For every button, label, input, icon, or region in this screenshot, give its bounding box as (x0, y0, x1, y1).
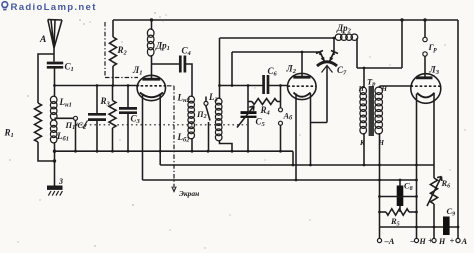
capacitor C8 (electrolytic block) (399, 180, 401, 212)
svg-text:Н: Н (358, 85, 365, 93)
wire R1 bottom to ground lead (38, 142, 55, 161)
wire C4 to Ln2 (186, 64, 192, 97)
svg-text:А: А (39, 35, 46, 45)
wire coil bottom to ground (54, 142, 56, 186)
tube L2 envelope (288, 73, 317, 99)
tube L1 anode (142, 78, 160, 81)
tube L2 anode (293, 76, 310, 79)
wire V2 grid line right part (269, 85, 288, 87)
choke Dr2 (335, 34, 342, 40)
svg-text:3: 3 (58, 177, 63, 186)
capacitor C4 (152, 63, 180, 65)
wire Tr primary bottom to bus (363, 133, 365, 165)
svg-text:А: А (461, 236, 468, 246)
wire C2 to cathode bus (96, 121, 98, 152)
resistor R6 (filament rheostat) (433, 165, 435, 178)
svg-text:П1/С2: П1/С2 (65, 120, 87, 131)
tube L1 grid (dashed) (136, 85, 166, 87)
wire Ab to bus (280, 125, 282, 151)
wire anode line y52 (L2 plate) (232, 51, 320, 53)
ground symbol (zemlya) (47, 186, 63, 190)
wire bottom bus y227 (380, 226, 459, 228)
node top rail / Gr junction (423, 18, 426, 21)
svg-text:Н: Н (419, 237, 427, 246)
wire V2 grid line left part (220, 85, 263, 87)
capacitor C2 (96, 86, 98, 114)
headphone terminal Gr upper (424, 20, 426, 37)
svg-text:Н: Н (378, 139, 385, 147)
tube L3 filament (417, 93, 435, 98)
wire V1 grid line (55, 85, 140, 87)
wire Ln2 bottom to bus (191, 138, 193, 151)
terminal Ab upper (279, 108, 283, 112)
switch P2 (205, 97, 207, 102)
resistor R3 (112, 86, 114, 101)
resistor R1 (35, 103, 42, 142)
svg-text:–А: –А (384, 236, 395, 246)
wire top B+ rail (113, 19, 458, 21)
svg-text:RadioLamp.net: RadioLamp.net (11, 2, 97, 13)
inductor Ln2 (188, 96, 195, 103)
wire filament bus y165 (160, 164, 434, 166)
inductor Lb1 (50, 120, 57, 127)
terminal -A (377, 238, 381, 242)
wire Dr2 out down (357, 38, 402, 68)
wire Tr secondary bottom down to -A (379, 133, 381, 238)
wire C7 stator left drop (319, 52, 321, 55)
wire antenna lead down (53, 48, 55, 62)
tube L1 envelope (137, 75, 165, 100)
svg-text:Н: Н (438, 237, 446, 246)
wire L2 filament leg right (310, 94, 312, 166)
wire drop x232 to grid2 line (231, 52, 233, 86)
wire C8 lower tie (380, 196, 417, 198)
(noise specks, decorative) (79, 19, 81, 21)
wire riser to top rail at x=402 (401, 20, 403, 68)
wire C1 to grid line (54, 67, 56, 85)
wire C7 stator right drop (333, 38, 335, 55)
wire R4 right / Ab jack branch (280, 86, 282, 108)
wire Gr to L3 anode (424, 56, 426, 77)
tube L3 grid (dashed) (411, 85, 443, 87)
resistor R5 (380, 211, 387, 213)
headphone terminal Gr lower (423, 52, 427, 56)
wire L2 filament leg left (295, 94, 297, 181)
shield dashed line (left) (105, 22, 138, 78)
wire L2 anode stem (301, 52, 303, 77)
resistor R2 (112, 20, 114, 37)
capacitor C6 (grid condenser) (262, 75, 265, 94)
capacitor C9 (electrolytic block) (443, 217, 450, 236)
shield dashed line Ekran (167, 86, 174, 188)
tube L2 grid (dashed) (288, 85, 317, 87)
wire L3 top riser to anode line (219, 38, 221, 99)
wire Tr primary top (363, 68, 365, 88)
wire L3 bottom to bus (220, 140, 233, 151)
wire antenna branch to R1 (38, 54, 54, 103)
tube L2 filament (294, 93, 311, 97)
transformer Tr secondary winding (375, 87, 383, 95)
tube L3 envelope (411, 74, 441, 104)
wire cathode bus y151 (55, 151, 294, 165)
transformer Tr core (369, 86, 374, 136)
wire C7 return to cathode (311, 67, 328, 123)
mechanical gang dotted line P1-P2-C5 (76, 124, 247, 126)
tube L1 filament (140, 93, 163, 98)
terminal Ab lower (279, 121, 283, 125)
tube L3 anode (416, 76, 433, 79)
wire P1 to cathode bus (75, 121, 77, 152)
choke Dr1 (151, 20, 153, 30)
wire filament bus y180 (143, 179, 417, 181)
wire L1 filament leg right (159, 94, 161, 166)
transformer Tr primary winding (360, 87, 367, 95)
antenna A (48, 20, 62, 49)
capacitor C3 (127, 86, 129, 108)
wire L1 filament leg left (142, 94, 144, 181)
capacitor C7 (variable, regeneration) (317, 62, 337, 66)
inductor L3 (215, 98, 222, 105)
capacitor C1 (47, 62, 63, 65)
capacitor C5 (variable padder) (247, 102, 249, 112)
wire L3 filament leg right (433, 94, 435, 165)
op... tube V1 (L1) anode stem (151, 55, 153, 79)
wire Tr secondary top to V3 grid (380, 86, 414, 88)
switch contact P1 (74, 116, 78, 120)
wire anode line y38 (220, 37, 337, 39)
inductor Ln1 (50, 96, 57, 103)
svg-text:Экран: Экран (179, 189, 199, 198)
wire right edge +A feed (457, 20, 459, 238)
RadioLamp.net logo icon (2, 2, 8, 11)
resistor R4 (grid leak) (248, 86, 252, 102)
wire C5 to bus (247, 118, 249, 151)
svg-text:+: + (450, 236, 455, 246)
wire coil tap to P1 (55, 117, 74, 119)
wire L3 filament leg left (to -N) (416, 94, 418, 238)
